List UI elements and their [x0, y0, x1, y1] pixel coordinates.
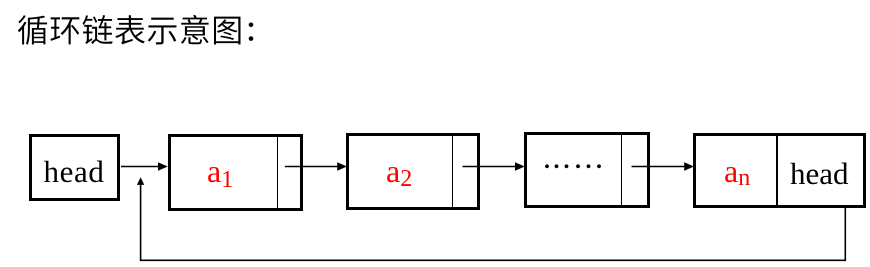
wire a1 to a2: [285, 166, 338, 168]
ellipsis node box: [524, 132, 651, 208]
label an: [724, 153, 750, 190]
node a1 pointer-field divider: [277, 137, 279, 207]
node box an with head field: [693, 133, 866, 207]
arrowhead into a1: [158, 162, 168, 171]
head box label: [44, 154, 105, 190]
label a1: [207, 153, 233, 190]
node box a1: [168, 134, 303, 210]
ellipsis node pointer-field divider: [621, 135, 623, 205]
arrowhead of loop pointing up: [137, 177, 144, 185]
wire head to a1: [121, 166, 159, 168]
node an divider: [776, 136, 778, 204]
label a2: [386, 153, 412, 190]
arrowhead into a2: [337, 162, 347, 171]
node a2 pointer-field divider: [452, 136, 454, 206]
title text 循环链表示意图：: [0, 0, 870, 60]
wire loop back from an.head down, left and up: [141, 185, 846, 261]
node box a2: [346, 133, 480, 209]
label head in last node: [790, 156, 849, 192]
arrowhead into an: [684, 162, 694, 171]
ellipsis dots: [545, 164, 549, 168]
wire a2 to ellipsis node: [463, 166, 516, 168]
arrowhead into ellipsis node: [515, 162, 525, 171]
wire ellipsis node to an: [632, 166, 685, 168]
head box: [29, 134, 120, 202]
